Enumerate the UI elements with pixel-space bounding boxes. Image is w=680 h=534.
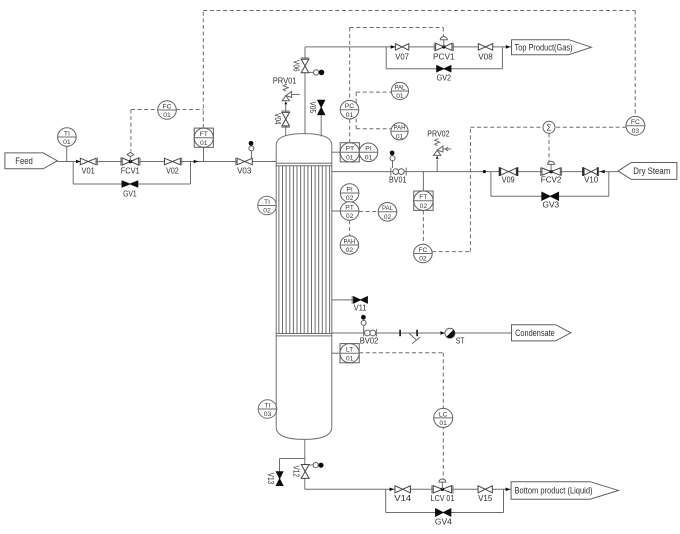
svg-text:01: 01 — [396, 93, 404, 100]
svg-text:PAH: PAH — [343, 239, 355, 245]
svg-text:V02: V02 — [166, 167, 179, 176]
svg-text:FT: FT — [200, 131, 208, 138]
svg-text:02: 02 — [346, 213, 354, 220]
svg-text:BV02: BV02 — [360, 337, 379, 346]
svg-text:FT: FT — [419, 194, 427, 201]
svg-text:PRV01: PRV01 — [273, 77, 297, 86]
svg-text:V08: V08 — [478, 53, 493, 62]
svg-text:01: 01 — [365, 155, 373, 162]
svg-text:PT: PT — [345, 204, 354, 211]
svg-text:FC: FC — [418, 247, 427, 254]
svg-text:V01: V01 — [82, 167, 96, 176]
svg-text:V14: V14 — [394, 494, 411, 503]
svg-text:V12: V12 — [291, 465, 300, 477]
svg-text:GV1: GV1 — [123, 189, 137, 198]
svg-text:PC: PC — [345, 103, 355, 110]
svg-text:PI: PI — [346, 186, 353, 193]
svg-text:V07: V07 — [395, 53, 409, 62]
svg-text:02: 02 — [346, 247, 354, 254]
svg-text:03: 03 — [632, 128, 640, 135]
svg-text:02: 02 — [263, 208, 271, 215]
svg-text:02: 02 — [420, 203, 428, 210]
svg-text:LCV 01: LCV 01 — [431, 494, 455, 503]
svg-text:V11: V11 — [354, 304, 367, 313]
svg-text:TI: TI — [64, 130, 70, 137]
svg-text:01: 01 — [346, 112, 354, 119]
svg-text:PI: PI — [365, 146, 372, 153]
svg-text:01: 01 — [346, 355, 354, 362]
svg-text:FCV1: FCV1 — [121, 167, 140, 176]
svg-text:01: 01 — [439, 420, 447, 427]
svg-text:V06: V06 — [291, 60, 300, 72]
svg-text:02: 02 — [346, 195, 354, 202]
svg-text:TI: TI — [264, 402, 270, 409]
svg-text:GV3: GV3 — [543, 201, 560, 210]
svg-text:Top Product(Gas): Top Product(Gas) — [515, 41, 573, 52]
svg-text:LT: LT — [346, 347, 353, 354]
svg-text:PT: PT — [345, 146, 354, 153]
svg-text:V15: V15 — [478, 494, 493, 503]
svg-text:FC: FC — [631, 119, 640, 126]
svg-text:BV01: BV01 — [389, 176, 407, 185]
svg-text:V05: V05 — [308, 102, 317, 114]
svg-text:V10: V10 — [584, 176, 598, 185]
svg-text:03: 03 — [264, 411, 272, 418]
svg-text:V04: V04 — [273, 113, 282, 125]
svg-text:GV4: GV4 — [435, 517, 452, 526]
svg-text:PRV02: PRV02 — [427, 129, 450, 138]
svg-text:ST: ST — [456, 337, 465, 346]
svg-text:Dry Steam: Dry Steam — [633, 165, 670, 176]
svg-text:PAH: PAH — [394, 126, 406, 132]
svg-text:PCV1: PCV1 — [433, 53, 455, 62]
svg-text:Σ: Σ — [546, 122, 551, 132]
svg-text:01: 01 — [346, 155, 354, 162]
svg-text:GV2: GV2 — [437, 74, 452, 83]
svg-text:02: 02 — [384, 214, 392, 221]
svg-text:02: 02 — [419, 256, 427, 263]
svg-text:PAL: PAL — [394, 85, 406, 91]
svg-text:LC: LC — [439, 411, 448, 418]
svg-text:01: 01 — [396, 134, 404, 141]
svg-text:01: 01 — [163, 112, 171, 119]
svg-text:PAL: PAL — [382, 206, 394, 212]
svg-text:V09: V09 — [502, 176, 515, 185]
svg-text:Bottom product (Liquid): Bottom product (Liquid) — [515, 485, 593, 496]
svg-text:V03: V03 — [237, 166, 252, 175]
svg-text:FCV2: FCV2 — [541, 176, 562, 185]
svg-text:FC: FC — [162, 103, 171, 110]
svg-text:V13: V13 — [266, 473, 275, 485]
svg-text:TI: TI — [264, 199, 270, 206]
svg-text:01: 01 — [200, 140, 208, 147]
svg-text:Feed: Feed — [15, 155, 33, 166]
svg-text:01: 01 — [63, 139, 71, 146]
svg-text:Condensate: Condensate — [515, 327, 555, 338]
